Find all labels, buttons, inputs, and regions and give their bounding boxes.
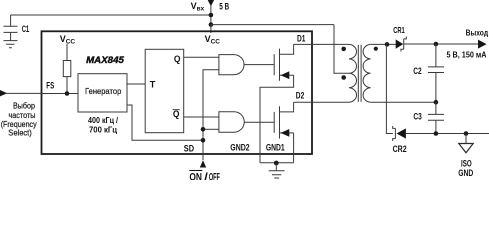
- node FS junction: [65, 91, 70, 96]
- wire FS input: [42, 93, 79, 95]
- diode CR2: [393, 126, 406, 141]
- wire transformer tap feed: [334, 25, 349, 74]
- node ISO dot: [464, 131, 469, 136]
- wire D1 source down-left to GND2 line: [260, 75, 294, 163]
- svg-text:Выход: Выход: [466, 27, 489, 37]
- wire AND2 out to gate D2: [244, 121, 274, 123]
- wire ISO stub: [465, 134, 467, 144]
- wire C2 to mid node: [435, 73, 437, 103]
- ground symbol IC: [269, 163, 285, 178]
- svg-text:OFF: OFF: [209, 172, 220, 180]
- svg-text:GND2: GND2: [230, 142, 249, 152]
- wire secondary top rail: [371, 43, 396, 45]
- svg-text:FS: FS: [46, 81, 54, 91]
- phase dot primary lower: [341, 75, 346, 80]
- svg-text:D1: D1: [297, 33, 306, 43]
- wire frequency select input: [6, 92, 42, 94]
- wire VCC rail to transformer tap: [211, 24, 334, 26]
- svg-text:SD: SD: [184, 143, 195, 153]
- wire SD vertical: [203, 70, 219, 160]
- phase dot secondary: [374, 47, 378, 51]
- wire D2 source down to ground bus: [293, 133, 295, 163]
- IC box MAX845: [42, 31, 313, 154]
- wire CR2 branch vertical: [386, 44, 393, 133]
- capacitor C1: [4, 26, 18, 40]
- wire C3 to bottom rail: [435, 120, 437, 133]
- capacitor C2: [428, 67, 444, 73]
- node SD junction dot: [201, 138, 206, 143]
- svg-text:5 В: 5 В: [219, 2, 229, 12]
- node mid dot: [434, 100, 439, 105]
- node SD tap dot: [201, 127, 206, 132]
- wire ground bus: [260, 162, 294, 164]
- wire Qbar to AND2: [184, 116, 219, 118]
- svg-text:Q: Q: [173, 109, 180, 119]
- svg-text:Q: Q: [174, 54, 181, 64]
- node secondary top junction: [385, 42, 390, 47]
- svg-text:/: /: [204, 172, 208, 180]
- node bottom C3 dot: [434, 131, 439, 136]
- diode CR1: [396, 37, 407, 52]
- svg-text:ON: ON: [189, 172, 202, 180]
- wire output rail: [404, 43, 480, 45]
- wire top rail from C1 to Vin node: [11, 14, 211, 16]
- wire Q to AND1: [184, 56, 219, 58]
- wire Vin stem: [210, 5, 212, 25]
- AND gate upper: [219, 55, 244, 75]
- wire oscillator to SD net: [127, 105, 203, 140]
- svg-text:Генератор: Генератор: [85, 86, 122, 96]
- wire VCC to resistor: [66, 44, 68, 61]
- resistor pull-up: [63, 61, 71, 77]
- capacitor C3: [428, 114, 444, 120]
- transformer secondary winding: [363, 44, 371, 102]
- transformer core: [358, 45, 361, 102]
- svg-text:Select): Select): [8, 129, 32, 138]
- wire SD tap to AND2: [203, 128, 219, 130]
- wire D2 drain to primary bottom: [294, 101, 349, 103]
- svg-text:CR1: CR1: [393, 25, 405, 35]
- svg-text:D2: D2: [296, 90, 305, 100]
- wire D1 drain to primary top: [294, 43, 349, 45]
- transistor D2: [274, 102, 293, 138]
- svg-text:T: T: [150, 79, 156, 89]
- oscillator box: [78, 74, 127, 112]
- node dot on VCC rail: [209, 22, 214, 27]
- phase dot primary top: [341, 47, 346, 52]
- svg-text:700 кГц: 700 кГц: [89, 126, 117, 135]
- transistor D1: [274, 44, 293, 80]
- svg-text:C3: C3: [413, 111, 421, 121]
- svg-text:(Frequency: (Frequency: [1, 120, 38, 129]
- svg-text:CR2: CR2: [393, 144, 407, 154]
- wire bottom rail: [406, 133, 489, 135]
- svg-text:400 кГц /: 400 кГц /: [88, 116, 119, 125]
- svg-text:MAX845: MAX845: [86, 55, 125, 65]
- node ground dot: [274, 161, 279, 166]
- flip-flop box: [145, 49, 184, 132]
- wire C1 drop: [10, 15, 12, 26]
- svg-text:C1: C1: [22, 24, 30, 34]
- svg-text:Выбор: Выбор: [13, 102, 35, 111]
- ON/OFF arrow: [200, 160, 206, 167]
- output arrow: [478, 40, 487, 49]
- wire VCC pin stub into IC: [210, 25, 212, 33]
- node C2 top dot: [434, 42, 439, 47]
- wire C3 drop: [435, 102, 437, 114]
- transformer primary winding: [349, 44, 357, 102]
- label ON/OFF overline: [189, 170, 202, 172]
- svg-text:GND1: GND1: [266, 142, 285, 152]
- wire secondary bottom rail: [371, 101, 436, 103]
- svg-text:C2: C2: [413, 66, 421, 76]
- Vin arrow: [208, 0, 214, 6]
- svg-text:GND: GND: [458, 168, 473, 178]
- frequency select arrow: [0, 90, 7, 96]
- AND gate lower: [219, 112, 244, 133]
- svg-text:5 В, 150 мА: 5 В, 150 мА: [447, 50, 487, 60]
- wire resistor to FS node: [66, 77, 68, 94]
- ground at C1: [4, 41, 18, 48]
- wire AND1 out to gate D1: [244, 64, 274, 66]
- wire C2 drop: [435, 44, 437, 67]
- wire oscillator to T input: [127, 83, 145, 85]
- node dot on C1 rail: [209, 13, 214, 18]
- ISO ground symbol: [459, 144, 473, 153]
